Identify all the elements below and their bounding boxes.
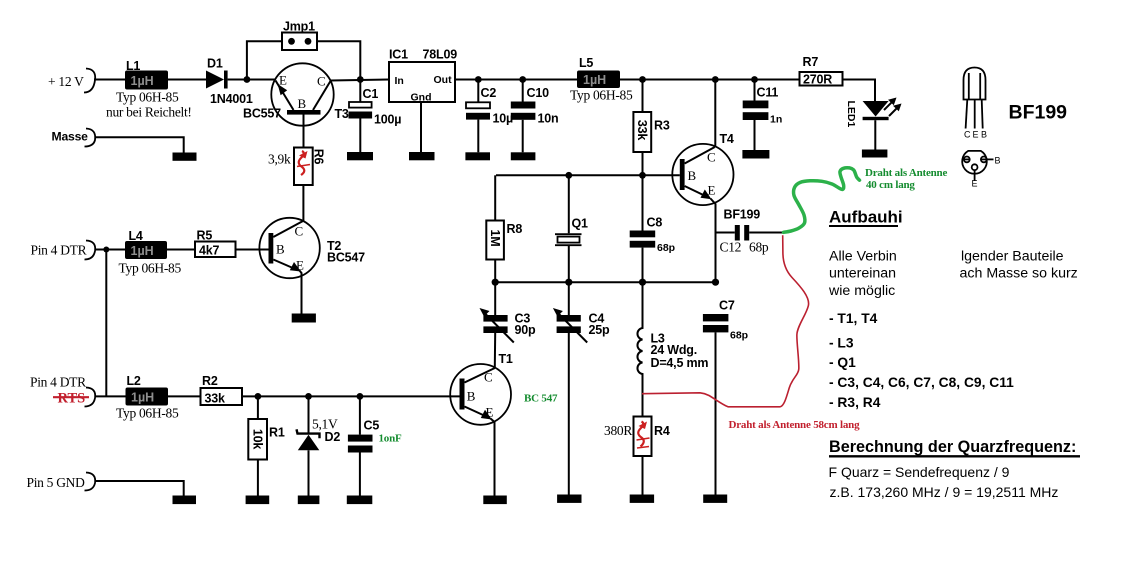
svg-text:R2: R2 xyxy=(202,374,218,388)
inductor L4 xyxy=(119,229,182,276)
svg-text:B: B xyxy=(981,130,987,140)
capacitor C12 xyxy=(716,225,784,255)
ground C10 xyxy=(511,152,536,160)
resistor R8 xyxy=(486,175,522,282)
node junction R3 xyxy=(639,76,646,83)
node junction C10 xyxy=(519,76,526,83)
wire T2 emitter to ground xyxy=(300,271,302,314)
wire jumper right riser xyxy=(317,41,360,79)
resistor R1 xyxy=(248,396,285,495)
svg-text:68p: 68p xyxy=(657,242,675,254)
wire L5 to R7 xyxy=(620,79,800,81)
svg-text:Out: Out xyxy=(434,74,453,86)
svg-text:C5: C5 xyxy=(364,419,380,433)
capacitor C5 xyxy=(348,396,402,495)
svg-text:1M: 1M xyxy=(488,230,502,247)
svg-text:Berechnung der Quarzfrequenz:: Berechnung der Quarzfrequenz: xyxy=(829,438,1076,456)
svg-text:4k7: 4k7 xyxy=(199,244,220,258)
svg-text:T1: T1 xyxy=(499,352,513,366)
wire Masse to ground xyxy=(95,137,184,152)
svg-text:380R: 380R xyxy=(604,423,632,438)
ground C2 xyxy=(465,152,490,160)
resistor R7 xyxy=(800,55,843,87)
ground T2 xyxy=(292,314,316,323)
svg-text:ach Masse so kurz: ach Masse so kurz xyxy=(960,266,1078,282)
svg-text:Typ 06H-85: Typ 06H-85 xyxy=(116,90,179,105)
svg-text:R1: R1 xyxy=(269,426,285,440)
svg-text:- T1, T4: - T1, T4 xyxy=(829,311,878,326)
svg-text:wie möglic: wie möglic xyxy=(828,283,895,299)
inductor L3 coil xyxy=(637,282,708,416)
wire L1 to D1 xyxy=(168,79,206,81)
svg-text:- R3, R4: - R3, R4 xyxy=(829,395,881,410)
svg-text:10n: 10n xyxy=(538,112,559,126)
node junction L3 xyxy=(639,279,646,286)
svg-text:nur bei Reichelt!: nur bei Reichelt! xyxy=(106,105,192,120)
wire DTR riser down xyxy=(105,250,107,397)
resistor R3 xyxy=(633,80,669,176)
connector Masse xyxy=(52,129,96,147)
BF199 package bottom view xyxy=(962,151,1000,189)
svg-text:- Q1: - Q1 xyxy=(829,355,856,370)
svg-text:BC557: BC557 xyxy=(243,107,281,121)
svg-text:R8: R8 xyxy=(507,222,523,236)
node junction C3 xyxy=(492,279,499,286)
svg-text:Pin 4 DTR: Pin 4 DTR xyxy=(30,375,86,390)
svg-text:C11: C11 xyxy=(757,86,779,100)
wire T4 collector up xyxy=(714,80,716,147)
svg-text:C7: C7 xyxy=(719,299,735,313)
wire antenna green 40cm xyxy=(784,168,860,233)
svg-text:C: C xyxy=(317,74,326,89)
svg-text:10µ: 10µ xyxy=(493,112,514,126)
svg-text:100µ: 100µ xyxy=(374,113,401,127)
svg-text:- C3, C4, C6, C7, C8, C9, C11: - C3, C4, C6, C7, C8, C9, C11 xyxy=(829,375,1014,390)
crystal Q1 xyxy=(555,175,588,282)
wire base row y175 xyxy=(496,174,680,176)
node junction D1/Jmp1 xyxy=(244,76,251,83)
svg-text:Pin 4 DTR: Pin 4 DTR xyxy=(31,243,87,258)
svg-text:IC1: IC1 xyxy=(389,48,408,62)
svg-text:R7: R7 xyxy=(803,55,819,69)
wire T3 base down to R6 xyxy=(303,115,305,148)
svg-text:1µH: 1µH xyxy=(131,391,154,405)
inductor L2 xyxy=(116,374,179,421)
node junction DTR riser xyxy=(103,247,109,253)
svg-text:Q1: Q1 xyxy=(572,217,589,231)
inductor L1 xyxy=(106,59,192,120)
svg-text:Gnd: Gnd xyxy=(411,92,432,104)
svg-text:1n: 1n xyxy=(770,114,782,126)
node junction C5 xyxy=(357,393,364,400)
ground Masse xyxy=(173,153,197,161)
capacitor C1 xyxy=(349,80,402,153)
svg-text:68p: 68p xyxy=(730,330,748,342)
zener diode D2 5,1V xyxy=(297,396,341,495)
inductor L5 xyxy=(570,56,633,103)
capacitor C3 trimmer xyxy=(480,282,537,367)
capacitor C11 xyxy=(743,80,783,151)
svg-text:25p: 25p xyxy=(589,323,611,337)
svg-text:40 cm lang: 40 cm lang xyxy=(866,179,915,191)
wire T1 emitter to ground xyxy=(491,419,495,496)
svg-text:68p: 68p xyxy=(749,240,769,255)
jumper Jmp1 xyxy=(282,20,317,51)
ground T1 xyxy=(483,496,507,505)
svg-text:Alle Verbin: Alle Verbin xyxy=(829,249,897,265)
svg-text:B: B xyxy=(276,242,285,257)
IC U1 IC1 78L09 xyxy=(389,48,457,104)
svg-text:L4: L4 xyxy=(129,229,143,243)
svg-text:1N4001: 1N4001 xyxy=(210,92,253,106)
node junction C1 xyxy=(357,76,364,83)
svg-text:33k: 33k xyxy=(205,392,226,406)
svg-text:LED1: LED1 xyxy=(845,101,857,128)
ground C7 xyxy=(703,495,727,503)
svg-text:90p: 90p xyxy=(515,323,537,337)
svg-text:E: E xyxy=(708,183,716,198)
ground C5 xyxy=(347,496,373,505)
svg-text:E: E xyxy=(973,130,979,140)
BF199 package side view xyxy=(964,68,988,140)
resistor R5 xyxy=(195,229,236,258)
connector +12V xyxy=(48,69,95,93)
node junction C2 xyxy=(475,76,482,83)
svg-text:33k: 33k xyxy=(635,120,649,141)
svg-text:C10: C10 xyxy=(527,86,550,100)
svg-text:B: B xyxy=(298,96,307,111)
svg-text:D1: D1 xyxy=(207,57,223,71)
wire D1 to T3 emitter xyxy=(228,79,275,81)
svg-text:Jmp1: Jmp1 xyxy=(283,20,315,34)
svg-text:Masse: Masse xyxy=(52,130,89,144)
capacitor C2 xyxy=(466,80,513,153)
diode D1 1N4001 xyxy=(206,57,253,107)
wire Pin4 to L4 xyxy=(95,249,126,251)
capacitor C4 trimmer xyxy=(553,282,610,494)
transistor T1 BC547 xyxy=(450,352,558,425)
svg-text:10k: 10k xyxy=(250,429,264,450)
svg-text:C: C xyxy=(964,130,971,140)
svg-text:Draht als Antenne 58cm lang: Draht als Antenne 58cm lang xyxy=(729,419,861,431)
wire L4 to R5 xyxy=(167,249,195,251)
wire Pin5 to ground xyxy=(95,481,184,496)
svg-text:C1: C1 xyxy=(363,87,379,101)
svg-text:z.B. 173,260 MHz / 9 = 19,2511: z.B. 173,260 MHz / 9 = 19,2511 MHz xyxy=(830,484,1059,500)
svg-text:BF199: BF199 xyxy=(1009,102,1068,124)
svg-text:R4: R4 xyxy=(654,424,670,438)
wire R7 to LED xyxy=(843,80,876,102)
svg-text:C8: C8 xyxy=(647,216,663,230)
ground C11 xyxy=(742,150,769,159)
svg-text:L2: L2 xyxy=(127,374,141,388)
capacitor C10 xyxy=(511,80,559,153)
wire L2 to R2 xyxy=(168,395,201,397)
svg-text:BC 547: BC 547 xyxy=(524,393,558,405)
ground C1 xyxy=(347,152,373,160)
svg-text:+ 12 V: + 12 V xyxy=(48,74,84,89)
svg-text:270R: 270R xyxy=(803,73,832,87)
svg-text:R6: R6 xyxy=(312,149,326,165)
svg-text:T3: T3 xyxy=(335,107,349,121)
svg-text:Pin 5 GND: Pin 5 GND xyxy=(27,475,86,490)
svg-text:untereinan: untereinan xyxy=(829,266,896,282)
capacitor C7 xyxy=(703,299,748,495)
ground IC1 xyxy=(409,152,435,160)
svg-text:B: B xyxy=(688,168,697,183)
svg-text:Typ 06H-85: Typ 06H-85 xyxy=(119,261,182,276)
wire jumper left riser xyxy=(247,41,282,79)
node junction C11 xyxy=(751,76,758,83)
LED LED1 xyxy=(845,98,902,150)
ground R1 xyxy=(246,496,270,505)
resistor R2 xyxy=(201,374,243,406)
svg-text:3,9k: 3,9k xyxy=(268,152,291,167)
node junction C8 top xyxy=(639,172,646,179)
node junction Q1 top xyxy=(565,172,572,179)
resistor R4 xyxy=(604,417,670,495)
svg-text:In: In xyxy=(395,75,404,87)
svg-text:C12: C12 xyxy=(720,240,742,255)
wire R5 to T2 base xyxy=(236,249,269,251)
resistor R6 xyxy=(268,148,326,186)
svg-text:1µH: 1µH xyxy=(583,73,606,87)
svg-text:C: C xyxy=(295,224,304,239)
node junction C7 xyxy=(712,279,719,286)
wire IC1 gnd pin xyxy=(420,102,422,152)
wire lower row y282 xyxy=(495,281,715,283)
svg-text:C: C xyxy=(484,370,493,385)
svg-text:D2: D2 xyxy=(325,430,341,444)
svg-text:C2: C2 xyxy=(481,86,497,100)
svg-text:1µH: 1µH xyxy=(131,74,154,88)
wire RTS to L2 xyxy=(95,395,126,397)
ground R4 xyxy=(630,495,654,503)
ground D2 xyxy=(298,496,320,505)
connector Pin4 DTR (top) xyxy=(31,241,96,260)
svg-text:C: C xyxy=(707,150,716,165)
svg-text:B: B xyxy=(467,389,476,404)
svg-text:Draht als Antenne: Draht als Antenne xyxy=(865,167,947,179)
svg-text:Typ 06H-85: Typ 06H-85 xyxy=(116,406,179,421)
svg-text:E: E xyxy=(486,405,494,420)
node junction C4 xyxy=(565,279,572,286)
svg-text:R3: R3 xyxy=(654,119,670,133)
svg-text:E: E xyxy=(972,179,978,189)
svg-text:E: E xyxy=(279,73,287,88)
svg-text:R5: R5 xyxy=(197,229,213,243)
svg-text:1onF: 1onF xyxy=(379,433,403,445)
svg-text:1µH: 1µH xyxy=(131,244,154,258)
svg-text:Aufbauhi: Aufbauhi xyxy=(829,208,903,227)
ground LED1 xyxy=(862,150,888,158)
svg-text:D=4,5 mm: D=4,5 mm xyxy=(651,356,709,370)
connector Pin4 DTR/RTS (bottom) xyxy=(30,375,95,407)
svg-text:78L09: 78L09 xyxy=(423,48,458,62)
wire T3 collector to C1 node xyxy=(331,80,390,81)
wire IC1 out rail xyxy=(455,79,577,81)
svg-text:BF199: BF199 xyxy=(724,208,761,222)
ground C4 xyxy=(557,495,581,503)
svg-text:B: B xyxy=(995,156,1001,166)
svg-text:24 Wdg.: 24 Wdg. xyxy=(651,343,698,357)
wire R2 to T1 base xyxy=(242,395,460,397)
wire T4 emitter down xyxy=(711,199,716,283)
transistor T4 BF199 xyxy=(672,132,760,222)
svg-text:L5: L5 xyxy=(579,56,593,70)
capacitor C8 xyxy=(630,175,675,282)
node junction T4 collector xyxy=(712,76,719,83)
node junction R1 xyxy=(255,393,262,400)
node junction D2 xyxy=(305,393,312,400)
svg-text:T4: T4 xyxy=(720,132,734,146)
svg-text:F Quarz = Sendefrequenz / 9: F Quarz = Sendefrequenz / 9 xyxy=(829,464,1010,480)
wire 12V rail to L1 xyxy=(94,79,125,81)
svg-text:RTS: RTS xyxy=(58,391,86,407)
svg-text:lgender Bauteile: lgender Bauteile xyxy=(961,249,1064,265)
svg-text:- L3: - L3 xyxy=(829,336,854,351)
ground Pin5 xyxy=(173,496,197,505)
transistor T3 BC557 xyxy=(243,63,349,125)
wire antenna red 58cm xyxy=(642,235,809,406)
wire R6 to T2 collector xyxy=(302,185,304,221)
transistor T2 BC547 xyxy=(259,218,365,278)
connector Pin5 GND xyxy=(27,473,96,491)
svg-text:BC547: BC547 xyxy=(327,251,365,265)
svg-text:Typ 06H-85: Typ 06H-85 xyxy=(570,88,633,103)
